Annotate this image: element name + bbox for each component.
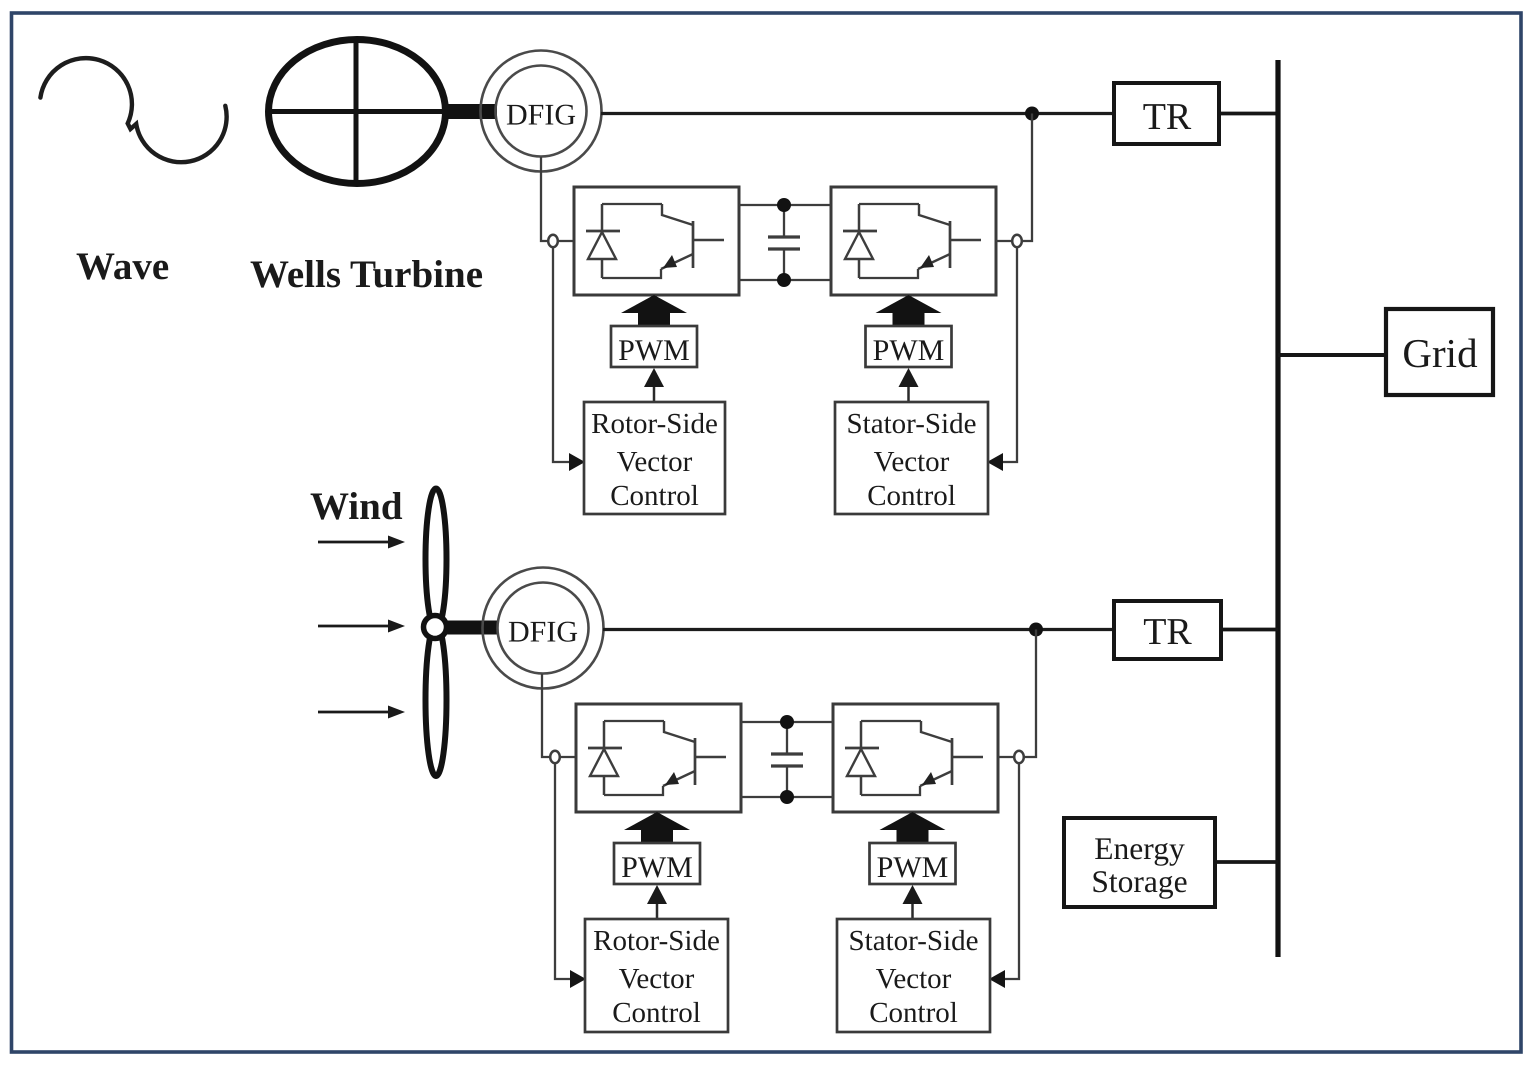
wind turbine hub (424, 616, 447, 639)
svg-text:PWM: PWM (621, 851, 693, 884)
Stator-Side Vector Control block (wind) (837, 919, 990, 1032)
capacitor C2 DC-link (wind) (771, 754, 803, 766)
Energy Storage block (1064, 818, 1215, 907)
arrow stator-side vector control to PWM (wind) (911, 901, 914, 919)
wire: Energy Storage to grid bus (1215, 860, 1278, 864)
wire: grid/stator-side (wave) converter internal bottom rail (859, 269, 918, 278)
svg-text:Vector: Vector (619, 963, 695, 995)
svg-text:Wave: Wave (76, 245, 169, 288)
svg-text:PWM: PWM (618, 334, 690, 367)
wire: DC link positive rail (wind) (741, 721, 833, 723)
junction: wave stator node (1025, 107, 1039, 121)
Rotor-Side Vector Control block (wave) (584, 402, 725, 514)
rotor-side (wind) converter box (576, 704, 741, 812)
diode D1 (601, 204, 604, 278)
wire: stator feedback to Stator-Side Vector Control (wind) (1004, 763, 1019, 979)
svg-text:Control: Control (612, 997, 701, 1029)
diode D4 (860, 721, 863, 795)
IGBT Q2 (919, 204, 950, 225)
grid/stator-side (wind) converter box (833, 704, 998, 812)
junction: DC link bottom node (wave) (777, 273, 791, 287)
svg-text:Wind: Wind (310, 485, 403, 528)
PWM block (stator-side, wave) (866, 326, 952, 367)
wire: DFIG wave rotor lead down to rotor converter input (541, 157, 547, 241)
wire: rotor current feedback to Rotor-Side Vector Control (wind) (555, 763, 571, 979)
wire: rotor-side (wind) converter internal top rail (604, 720, 664, 722)
thick gating arrow PWM to rotor-side converter (wave) (638, 308, 670, 328)
wire: DC link positive rail (wave) (739, 204, 831, 206)
svg-text:Stator-Side: Stator-Side (847, 408, 977, 440)
svg-text:Rotor-Side: Rotor-Side (591, 408, 718, 440)
Wells turbine rotor (circle with cross) (269, 40, 446, 184)
wind arrow 2 (318, 625, 390, 628)
svg-text:TR: TR (1143, 611, 1192, 653)
wire: terminal to rotor-side converter (wave) (558, 240, 574, 242)
node: stator converter AC terminal (wave) (1012, 235, 1022, 247)
wire: stator-side converter to terminal (wave) (996, 240, 1012, 242)
wind turbine blade (upper) (426, 489, 447, 630)
shaft: wind turbine to DFIG (wind) (446, 621, 497, 635)
wind turbine blade (lower) (426, 624, 447, 776)
wire: stator-side converter to terminal (wind) (998, 756, 1014, 758)
PWM block (rotor-side, wave) (611, 326, 697, 367)
wave symbol (ocean wave) (40, 58, 226, 162)
wire: rotor current feedback to Rotor-Side Vector Control (wave) (553, 247, 570, 462)
arrowhead into Stator-Side Vector Control (wave) (987, 453, 1003, 471)
svg-text:Vector: Vector (876, 963, 952, 995)
node: stator converter AC terminal (wind) (1014, 751, 1024, 763)
wind arrow 1 (318, 541, 390, 544)
IGBT Q1 (662, 204, 693, 225)
grid bus (common coupling bar) (1275, 60, 1280, 957)
wire: grid/stator-side (wave) converter internal top rail (859, 203, 919, 205)
svg-text:PWM: PWM (873, 334, 945, 367)
wire: DFIG wind rotor lead down to rotor converter input (542, 674, 549, 757)
svg-text:DFIG: DFIG (508, 616, 578, 649)
wire: grid/stator-side (wind) converter internal bottom rail (861, 786, 920, 795)
junction: DC link top node (wind) (780, 715, 794, 729)
wire: rotor-side (wave) converter internal top rail (602, 203, 662, 205)
svg-text:Control: Control (867, 480, 956, 512)
arrow rotor-side vector control to PWM (wind) (656, 901, 659, 919)
arrow stator-side vector control to PWM (wave) (907, 384, 910, 402)
wire: stator converter terminal riser to stator bus (wave) (1022, 114, 1032, 242)
thick gating arrow PWM to stator-side converter (wave) (893, 308, 925, 328)
rotor-side (wave) converter box (574, 187, 739, 295)
arrowhead into Stator-Side Vector Control (wind) (989, 970, 1005, 988)
arrowhead into Rotor-Side Vector Control (wave) (569, 453, 585, 471)
wire: stator feedback to Stator-Side Vector Control (wave) (1002, 247, 1017, 462)
PWM block (stator-side, wind) (870, 843, 956, 884)
wire: DC link negative rail (wave) (739, 279, 831, 281)
shaft: Wells turbine to DFIG (wave) (446, 104, 497, 119)
node: rotor converter AC terminal (wind) (550, 751, 560, 763)
diode D3 (603, 721, 606, 795)
Stator-Side Vector Control block (wave) (835, 402, 988, 514)
transformer TR1 (wave) (1114, 83, 1219, 144)
svg-text:Control: Control (869, 997, 958, 1029)
svg-text:TR: TR (1143, 96, 1192, 138)
wire: bus to Grid (1278, 353, 1386, 357)
generator DFIG G1 (wave) (481, 51, 602, 172)
svg-text:Energy: Energy (1094, 831, 1185, 866)
arrow rotor-side vector control to PWM (wave) (653, 384, 656, 402)
wire: terminal to rotor-side converter (wind) (560, 756, 576, 758)
wire: TR1 to grid bus (1219, 112, 1278, 116)
junction: DC link top node (wave) (777, 198, 791, 212)
svg-text:PWM: PWM (877, 851, 949, 884)
wire: grid/stator-side (wind) converter internal top rail (861, 720, 921, 722)
svg-text:Storage: Storage (1091, 864, 1187, 899)
node: rotor converter AC terminal (wave) (548, 235, 558, 247)
svg-text:Grid: Grid (1402, 330, 1477, 376)
arrowhead into Rotor-Side Vector Control (wind) (570, 970, 586, 988)
wind arrow 3 (318, 711, 390, 714)
svg-text:DFIG: DFIG (506, 99, 576, 132)
grid/stator-side (wave) converter box (831, 187, 996, 295)
wire: rotor-side (wind) converter internal bottom rail (604, 786, 663, 795)
Rotor-Side Vector Control block (wind) (585, 919, 728, 1032)
svg-text:Vector: Vector (874, 446, 950, 478)
svg-text:Stator-Side: Stator-Side (849, 925, 979, 957)
diode D2 (858, 204, 861, 278)
wire: TR2 to grid bus (1221, 628, 1278, 632)
wire: DFIG G1 stator to transformer TR1 (601, 112, 1114, 115)
svg-text:Control: Control (610, 480, 699, 512)
wire: rotor-side (wave) converter internal bottom rail (602, 269, 661, 278)
PWM block (rotor-side, wind) (614, 843, 700, 884)
wire: stator converter terminal riser to stator bus (wind) (1024, 630, 1036, 758)
svg-text:Vector: Vector (617, 446, 693, 478)
capacitor C1 DC-link (wave) (768, 237, 800, 249)
junction: DC link bottom node (wind) (780, 790, 794, 804)
IGBT Q4 (921, 721, 952, 742)
IGBT Q3 (664, 721, 695, 742)
thick gating arrow PWM to rotor-side converter (wind) (641, 825, 673, 845)
svg-text:Wells Turbine: Wells Turbine (250, 253, 483, 296)
Grid block (1386, 309, 1493, 395)
thick gating arrow PWM to stator-side converter (wind) (897, 825, 929, 845)
junction: wind stator node (1029, 623, 1043, 637)
transformer TR2 (wind) (1114, 601, 1221, 659)
wire: DC link negative rail (wind) (741, 796, 833, 798)
generator DFIG G2 (wind) (483, 568, 604, 689)
svg-text:Rotor-Side: Rotor-Side (593, 925, 720, 957)
wire: DFIG G2 stator to transformer TR2 (603, 628, 1114, 631)
